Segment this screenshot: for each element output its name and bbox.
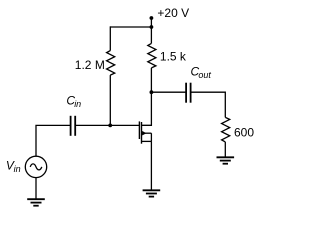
svg-text:in: in (74, 99, 81, 109)
source Vin (sine generator) (25, 156, 46, 177)
wire RL bottom to ground (224, 142, 226, 157)
capacitor Cout plates (186, 83, 191, 103)
label Vin (6, 159, 21, 175)
svg-text:in: in (14, 164, 21, 174)
svg-text:1.5 k: 1.5 k (160, 49, 187, 63)
wire transistor source down to ground (150, 141, 152, 190)
resistor R2 1.5 k zigzag (148, 43, 156, 68)
wire top rail horizontal (110, 26, 151, 28)
resistor R1 1.2 M zigzag (107, 51, 115, 76)
wire rail down to R1 top (109, 26, 111, 50)
wire drain node down to transistor drain lead (142, 92, 152, 125)
transistor Q1 (n-channel MOSFET) (139, 121, 151, 143)
wire VDD terminal down to rail junction (150, 18, 152, 27)
svg-text:+20 V: +20 V (157, 6, 189, 20)
wire Vin top up and right to Cin left plate (36, 125, 71, 156)
junction dot gate node (108, 124, 112, 128)
wire Cin right plate to gate node to transistor gate (75, 124, 139, 126)
label Cin (66, 94, 81, 110)
node VDD terminal dot (150, 16, 154, 20)
wire R2 bottom to drain node (150, 68, 152, 92)
wire Cout right plate to load resistor top (191, 92, 226, 117)
wire drain node right to Cout left plate (151, 91, 186, 93)
ground load (217, 157, 235, 163)
junction dot on rail (150, 25, 154, 29)
wire R1 bottom down to gate node (109, 75, 111, 125)
ground source (143, 190, 161, 196)
wire Vin bottom to ground (35, 178, 37, 199)
capacitor Cin plates (71, 116, 76, 136)
svg-text:1.2 M: 1.2 M (75, 58, 105, 72)
svg-text:600: 600 (234, 125, 254, 139)
label Cout (191, 64, 212, 80)
resistor RL 600 zigzag (222, 117, 230, 141)
svg-text:out: out (198, 70, 211, 80)
wire rail junction down to R2 top (150, 27, 152, 43)
ground Vin (27, 199, 45, 206)
junction dot drain node (150, 90, 154, 94)
